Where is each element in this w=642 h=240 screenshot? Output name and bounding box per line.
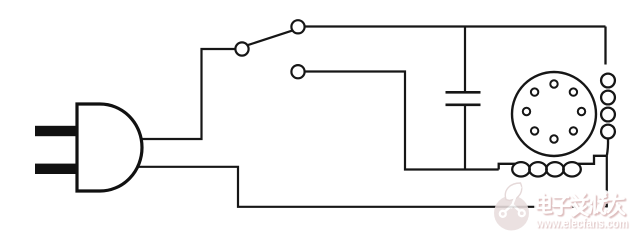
switch throw1 contact [291, 20, 304, 33]
plug prong top [35, 126, 77, 136]
inductor L2 horizontal (start winding) [499, 156, 607, 177]
switch common contact [235, 42, 248, 55]
wire bottom return [137, 156, 607, 207]
wire throw2 to bottom node [305, 72, 499, 170]
plug prong bottom [35, 164, 77, 174]
watermark logo (elecfans) [494, 183, 529, 231]
wire switch lever [248, 31, 293, 46]
motor rotor circle [512, 72, 596, 156]
plug body [77, 104, 142, 191]
wire capacitor bottom lead [464, 106, 466, 170]
motor commutator dots [523, 80, 585, 142]
wire plug-top to switch common [138, 49, 236, 139]
watermark chinese text dian zi fa shao you [538, 194, 625, 216]
wire capacitor top lead [464, 27, 466, 92]
switch throw2 contact [291, 65, 304, 78]
inductor L1 vertical (main winding) [601, 27, 615, 156]
capacitor C plates [446, 92, 481, 105]
svg-text:www.elecfans.com: www.elecfans.com [535, 216, 628, 231]
wire top line throw1 to right [305, 25, 606, 27]
watermark url text www.elecfans.com [535, 216, 629, 232]
